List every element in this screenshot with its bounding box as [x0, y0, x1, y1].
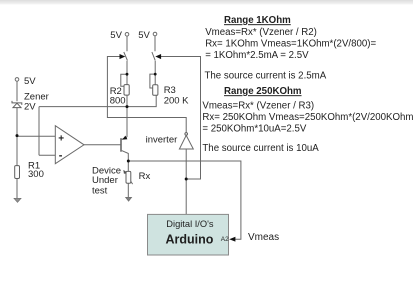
wire Rx to ground: [127, 183, 129, 197]
svg-text:Vmeas=Rx* (Vzener / R3): Vmeas=Rx* (Vzener / R3): [202, 101, 314, 112]
svg-text:Rx: Rx: [139, 171, 151, 182]
wire zener 5V supply vertical: [16, 81, 18, 101]
resistor R2 body: [124, 85, 129, 96]
svg-text:5V: 5V: [110, 30, 122, 41]
transistor Q1 base bar: [120, 138, 122, 152]
ground (R1): [14, 198, 21, 202]
wire inverter output to Arduino: [185, 149, 187, 214]
wire switch S2 to R3: [154, 61, 156, 85]
wire 5V to switch S1: [126, 36, 128, 51]
node junction (collector / Vmeas): [127, 160, 130, 163]
svg-text:5V: 5V: [138, 30, 150, 41]
terminal 5V (zener branch): [15, 78, 19, 82]
node junction (inverter output): [185, 178, 188, 181]
svg-text:Range 250KOhm: Range 250KOhm: [224, 86, 302, 97]
wire R2 top loop: [121, 74, 127, 86]
wire feedback vertical: [38, 107, 40, 156]
Vmeas arrowhead into A2: [229, 237, 235, 242]
svg-text:Rx= 1KOhm Vmeas=1KOhm*(2V/800: Rx= 1KOhm Vmeas=1KOhm*(2V/800)=: [205, 38, 376, 49]
terminal 5V (R3 branch): [153, 32, 157, 36]
svg-text:2V: 2V: [24, 101, 36, 112]
switch S2 control arrowhead: [155, 54, 161, 59]
resistor R1 body: [15, 166, 20, 179]
svg-text:Range 1KOhm: Range 1KOhm: [224, 15, 291, 26]
ground (Rx): [126, 197, 132, 201]
wire op-amp inverting input: [39, 154, 55, 156]
svg-text:inverter: inverter: [146, 135, 178, 146]
svg-text:-: -: [59, 150, 63, 162]
svg-text:= 250KOhm*10uA=2.5V: = 250KOhm*10uA=2.5V: [202, 123, 306, 134]
wire switch S1 control line: [107, 57, 186, 133]
switch S2 blade: [152, 52, 155, 60]
wire R1 to ground: [16, 179, 18, 199]
wire feedback horizontal node B: [39, 106, 127, 108]
wire zener to R1 vertical: [16, 108, 18, 166]
wire op-amp noninverting input: [17, 135, 55, 137]
switch S1 blade: [124, 52, 128, 60]
switch S1 control arrowhead: [120, 54, 126, 59]
resistor R3 body: [153, 85, 158, 96]
inverter U2: [185, 133, 188, 136]
transistor Q1 emitter arrowhead (PNP): [122, 136, 127, 140]
Rx arrow head: [123, 170, 127, 174]
svg-text:The source current is 10uA: The source current is 10uA: [202, 143, 319, 154]
transistor Q1 emitter lead: [122, 137, 127, 139]
node junction B (R2 bottom / feedback): [126, 105, 129, 108]
svg-text:Rx= 250KOhm Vmeas=250KOhm*(2V: Rx= 250KOhm Vmeas=250KOhm*(2V/200KOhm)=: [202, 112, 413, 123]
terminal 5V (R2 branch): [125, 33, 129, 37]
svg-text:Digital I/O's: Digital I/O's: [166, 219, 214, 229]
wire Vmeas sense line: [128, 161, 241, 239]
svg-text:Vmeas: Vmeas: [248, 232, 279, 243]
svg-text:+: +: [58, 133, 64, 144]
svg-text:test: test: [92, 186, 108, 197]
wire 5V to switch S2: [154, 36, 156, 51]
op-amp U1: [55, 126, 84, 164]
wire R2 bottom to transistor emitter: [126, 95, 128, 137]
Arduino box: [148, 214, 229, 255]
svg-text:300: 300: [28, 169, 44, 180]
resistor Rx body: [126, 171, 131, 183]
svg-text:5V: 5V: [24, 76, 36, 87]
node junction (R3 top): [154, 73, 157, 76]
wire R3 bottom to node B: [127, 95, 156, 106]
node junction (zener / op-amp input): [16, 134, 19, 137]
svg-text:A2: A2: [221, 236, 229, 243]
wire op-amp output to transistor base: [84, 144, 121, 146]
wire switch S2 control line: [161, 57, 201, 180]
svg-text:The source current is 2.5mA: The source current is 2.5mA: [205, 70, 327, 81]
wire switch S1 to R2: [126, 61, 128, 85]
Rx variable arrow: [124, 171, 133, 184]
svg-text:Vmeas=Rx* (Vzener / R2): Vmeas=Rx* (Vzener / R2): [205, 27, 317, 38]
zener diode D1: [12, 101, 22, 108]
svg-text:800: 800: [110, 96, 126, 107]
svg-text:200 K: 200 K: [164, 96, 189, 107]
node junction (R2 top): [126, 73, 129, 76]
svg-text:= 1KOhm*2.5mA = 2.5V: = 1KOhm*2.5mA = 2.5V: [205, 50, 309, 61]
svg-text:Arduino: Arduino: [166, 232, 214, 246]
wire R3 top loop: [150, 74, 155, 88]
transistor Q1 collector lead: [122, 151, 129, 172]
